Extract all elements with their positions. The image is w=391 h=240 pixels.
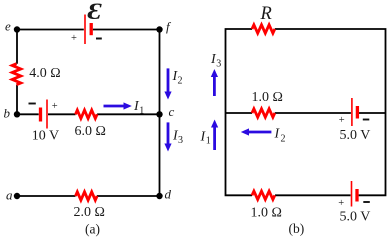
svg-text:Ɛ: Ɛ <box>88 0 103 24</box>
node b <box>14 111 20 117</box>
svg-text:1: 1 <box>206 136 211 147</box>
svg-text:2.0 Ω: 2.0 Ω <box>74 205 105 220</box>
svg-text:+: + <box>52 101 58 112</box>
node e <box>14 26 20 32</box>
wire left e-b (split by resistor) <box>16 30 18 115</box>
svg-text:+: + <box>338 198 344 209</box>
minus sign of EMF battery <box>96 38 102 40</box>
svg-text:c: c <box>169 104 175 119</box>
svg-text:1.0 Ω: 1.0 Ω <box>251 206 282 221</box>
svg-text:(b): (b) <box>289 221 305 236</box>
battery 10 V (middle) <box>41 100 48 129</box>
current arrow I2 (left, panel b) <box>241 128 272 135</box>
svg-text:+: + <box>339 115 345 126</box>
resistor 1.0 ohm (bottom, panel b) <box>252 191 275 199</box>
wire right f-c-d <box>159 30 161 197</box>
svg-text:(a): (a) <box>85 222 100 237</box>
minus sign (middle battery b) <box>363 119 370 121</box>
svg-text:+: + <box>71 33 77 44</box>
svg-text:R: R <box>260 4 272 24</box>
svg-text:1.0 Ω: 1.0 Ω <box>252 90 283 105</box>
svg-text:4.0 Ω: 4.0 Ω <box>29 66 60 81</box>
svg-text:b: b <box>4 106 11 121</box>
node d <box>156 193 162 199</box>
svg-text:3: 3 <box>178 135 183 146</box>
svg-text:5.0 V: 5.0 V <box>340 210 371 225</box>
minus sign of 10V battery <box>29 103 36 105</box>
wire top e-f (split by battery EMF) <box>17 29 160 31</box>
current arrow I1 <box>104 102 132 109</box>
current arrow I3 (down, panel a) <box>164 122 171 151</box>
resistor R (top, panel b) <box>252 25 275 33</box>
minus sign (bottom battery b) <box>363 201 370 203</box>
svg-text:e: e <box>5 19 11 34</box>
svg-text:5.0 V: 5.0 V <box>340 128 371 143</box>
resistor 2.0 ohm (bottom) <box>76 192 98 200</box>
svg-text:a: a <box>6 188 13 203</box>
wire middle (panel b, split by resistor and battery) <box>226 112 386 114</box>
wire middle b-c (split by battery and resistor) <box>17 113 160 115</box>
svg-text:10 V: 10 V <box>32 129 59 144</box>
outer rectangle wires of panel b <box>226 29 386 195</box>
battery 5.0 V (middle, panel b) <box>352 98 358 126</box>
resistor 6.0 ohm (middle horizontal) <box>76 110 98 118</box>
node f <box>156 26 162 32</box>
svg-text:6.0 Ω: 6.0 Ω <box>75 124 106 139</box>
resistor 1.0 ohm (middle, panel b) <box>252 109 275 117</box>
svg-text:d: d <box>165 187 172 202</box>
svg-text:1: 1 <box>139 106 144 117</box>
resistor 4.0 ohm (vertical, left) <box>12 64 21 85</box>
battery EMF (top) <box>85 15 91 45</box>
wire bottom a-d (split by resistor) <box>17 195 160 197</box>
current arrow I1 (up, panel b) <box>211 120 218 151</box>
svg-text:3: 3 <box>216 59 221 70</box>
node c <box>156 111 162 117</box>
svg-text:2: 2 <box>281 134 286 145</box>
svg-text:2: 2 <box>178 76 183 87</box>
current arrow I2 (down) <box>164 68 171 99</box>
node a <box>14 193 20 199</box>
battery 5.0 V (bottom, panel b) <box>352 181 358 207</box>
current arrow I3 (up, panel b) <box>211 69 218 96</box>
